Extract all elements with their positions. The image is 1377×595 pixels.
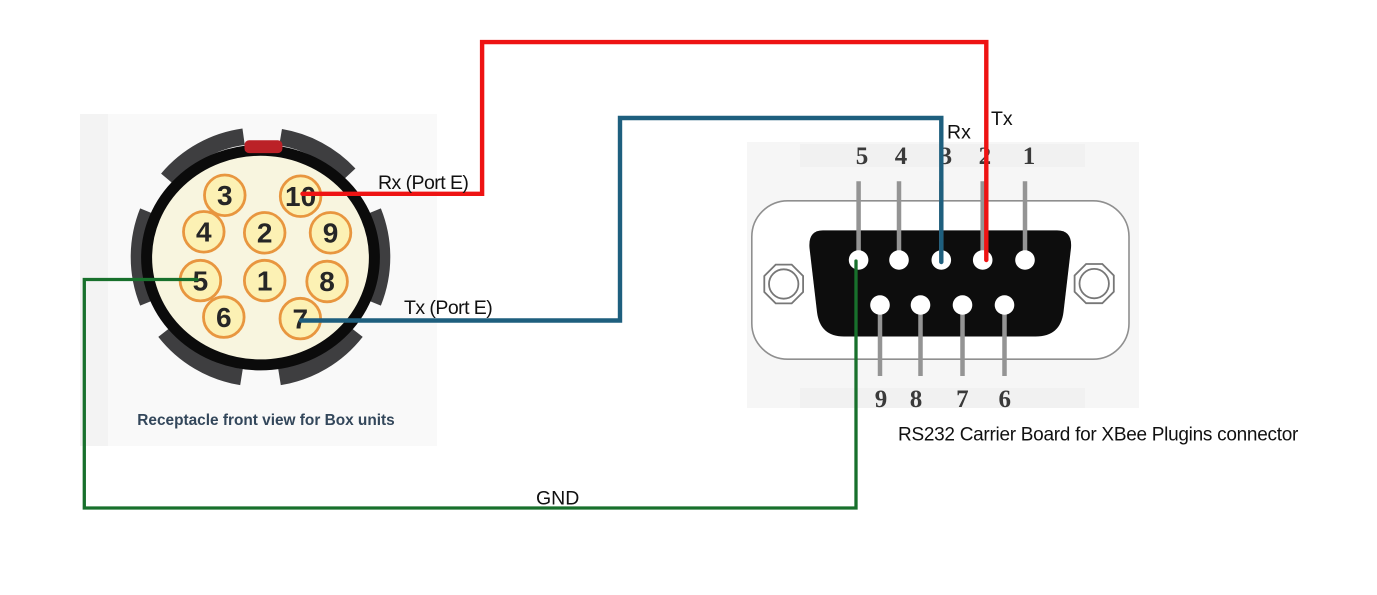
connector J2 screw hole right [1075, 264, 1114, 303]
DB9 photo background band [747, 142, 1139, 408]
connector J2 DB9 insulator D-shape [809, 230, 1071, 336]
pin 6 socket [995, 295, 1015, 315]
DB9 photo numbers band bottom [800, 388, 1085, 408]
svg-text:6: 6 [998, 386, 1011, 413]
connector J2 DB9 shell outline [752, 201, 1129, 359]
pin 5 socket [849, 250, 869, 270]
connector J1 pin contacts [180, 175, 351, 339]
svg-text:2: 2 [257, 218, 273, 249]
pin 9 socket [870, 295, 890, 315]
svg-text:4: 4 [196, 217, 212, 248]
ring segment top-right [281, 137, 350, 174]
connector J2 screw hole left [764, 265, 803, 304]
pin 1 socket [1015, 250, 1035, 270]
pin 8 [307, 261, 348, 302]
svg-text:Tx: Tx [991, 108, 1013, 130]
svg-text:8: 8 [319, 266, 335, 297]
connector J1 polarizing key [245, 140, 283, 153]
connector J1 receptacle outer bayonet ring [139, 137, 382, 377]
svg-text:8: 8 [910, 386, 923, 413]
pin 5 [180, 260, 221, 301]
DB9 photo numbers band top [800, 144, 1085, 167]
pin 3 socket [932, 250, 952, 270]
svg-text:Rx (Port E): Rx (Port E) [378, 172, 468, 194]
wire Rx red [303, 42, 987, 260]
svg-text:Rx: Rx [947, 122, 971, 144]
connector J1 pin numbers [193, 180, 339, 334]
pin 9 [310, 213, 351, 254]
svg-text:6: 6 [216, 302, 232, 333]
svg-text:RS232 Carrier Board for XBee P: RS232 Carrier Board for XBee Plugins con… [898, 425, 1299, 446]
svg-text:GND: GND [536, 488, 579, 510]
connector J2 pin sockets bottom row [870, 295, 1014, 315]
pin 8 socket [911, 295, 931, 315]
connector J1 shell black ring and insulator face [147, 150, 375, 365]
ring segment bottom-right [280, 332, 357, 377]
pin 10 [280, 176, 321, 217]
pin 7 [280, 298, 321, 339]
svg-text:9: 9 [875, 386, 888, 413]
ring segment top-left [167, 137, 243, 179]
connector J2 pin numbers top [856, 143, 1036, 170]
pin 2 [244, 213, 285, 254]
receptacle photo background panel [80, 114, 437, 446]
pin 4 [184, 212, 225, 253]
pin 2 socket [973, 250, 993, 270]
svg-text:9: 9 [323, 218, 339, 249]
ring tab left [139, 212, 148, 303]
svg-text:4: 4 [895, 143, 908, 170]
pin 6 [204, 297, 245, 338]
svg-text:1: 1 [1023, 143, 1036, 170]
ring segment bottom-left [165, 332, 242, 377]
svg-text:10: 10 [285, 181, 316, 212]
pin 1 [244, 260, 285, 301]
svg-text:5: 5 [856, 143, 869, 170]
svg-text:Receptacle front view for Box: Receptacle front view for Box units [137, 412, 394, 429]
pin 3 [205, 175, 246, 216]
connector J2 pin numbers bottom [875, 386, 1011, 413]
pin 7 socket [953, 295, 973, 315]
wire Tx blue [301, 118, 941, 321]
connector J2 pin sockets top row [849, 250, 1035, 270]
pin 4 socket [889, 250, 909, 270]
connector J2 pin leads top [859, 181, 1025, 260]
wire GND green [84, 261, 856, 508]
svg-text:7: 7 [956, 386, 969, 413]
ring tab right [373, 212, 382, 303]
svg-text:1: 1 [257, 265, 273, 296]
connector J2 pin leads bottom [880, 305, 1005, 376]
svg-text:3: 3 [217, 180, 233, 211]
svg-text:Tx (Port E): Tx (Port E) [404, 297, 492, 319]
